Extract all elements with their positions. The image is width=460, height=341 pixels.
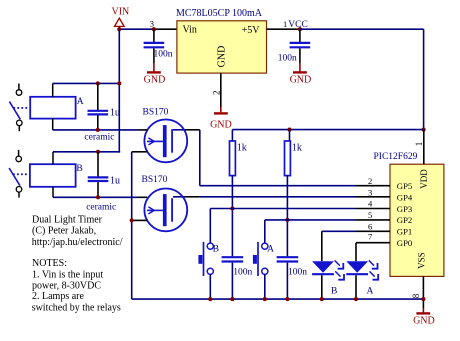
node R1-GP3 junction xyxy=(230,206,234,210)
svg-text:GP2: GP2 xyxy=(397,215,412,225)
resistor R1 1k xyxy=(230,141,247,176)
svg-text:4: 4 xyxy=(368,199,373,209)
node button A rail junction xyxy=(263,297,267,301)
node C4 rail junction xyxy=(285,297,289,301)
node VIN-relayA junction xyxy=(117,81,121,85)
svg-text:2: 2 xyxy=(368,176,372,186)
wire GP5 net from Q1 drain xyxy=(173,130,390,186)
capacitor CB 1u ceramic xyxy=(86,152,120,213)
svg-text:switched by the relays: switched by the relays xyxy=(32,303,121,314)
svg-text:5: 5 xyxy=(368,210,372,220)
svg-text:B: B xyxy=(331,287,337,297)
node capB bottom junction xyxy=(96,195,100,199)
svg-text:GND: GND xyxy=(210,119,232,130)
relay K1 A xyxy=(30,97,84,119)
svg-text:(C) Peter Jakab,: (C) Peter Jakab, xyxy=(32,226,96,237)
switch SB (relay B contact) xyxy=(9,150,27,198)
svg-text:100n: 100n xyxy=(278,54,297,64)
node R2 top junction xyxy=(287,128,291,132)
svg-text:1u: 1u xyxy=(110,108,120,119)
node C2 junction xyxy=(298,27,302,31)
wire R2 top lead xyxy=(289,130,291,141)
svg-text:1k: 1k xyxy=(292,142,302,153)
svg-text:ceramic: ceramic xyxy=(86,203,116,213)
wire VIN to C1 junction xyxy=(119,28,154,30)
supply symbol VIN xyxy=(112,7,130,30)
svg-text:B: B xyxy=(213,245,219,255)
relay K2 B xyxy=(30,164,83,187)
svg-text:1: 1 xyxy=(283,19,287,29)
wire GP2 net to button A xyxy=(265,220,390,243)
svg-text:GP4: GP4 xyxy=(397,192,413,202)
ground symbol for U1 pin 2 xyxy=(210,107,232,130)
svg-text:ceramic: ceramic xyxy=(84,132,114,142)
node C3 rail junction xyxy=(230,297,234,301)
pin 3 lead of U1 xyxy=(150,19,178,30)
wire VIN rail xyxy=(118,29,120,152)
LED B xyxy=(312,260,344,299)
svg-text:VDD: VDD xyxy=(419,169,429,189)
svg-text:GP1: GP1 xyxy=(397,227,412,237)
svg-text:GND: GND xyxy=(290,75,312,86)
node button B rail junction xyxy=(208,297,212,301)
svg-text:7: 7 xyxy=(368,231,372,241)
svg-text:1k: 1k xyxy=(237,142,247,153)
svg-text:B: B xyxy=(76,164,82,174)
wire GP4 net from Q2 drain xyxy=(173,196,390,198)
svg-text:GND: GND xyxy=(413,315,435,326)
capacitor C1 100n xyxy=(144,29,173,63)
wire GP1 net to LED B xyxy=(322,231,390,261)
wire source rail down xyxy=(131,152,133,299)
wire VCC top xyxy=(300,28,424,30)
LED A xyxy=(346,260,378,299)
svg-text:A: A xyxy=(77,97,84,107)
pin 2 lead of U1 xyxy=(211,73,221,107)
node capA bottom junction xyxy=(96,128,100,132)
svg-text:BS170: BS170 xyxy=(143,108,169,118)
wire Q2 source stub xyxy=(132,219,148,221)
wire relay A bottom to Q1 gate xyxy=(53,129,148,131)
ground symbol for U2 pin 8 xyxy=(413,308,435,326)
pin relay B bottom xyxy=(52,187,54,198)
transistor Q1 BS170 xyxy=(143,108,188,163)
svg-text:2. Lamps are: 2. Lamps are xyxy=(32,291,84,302)
svg-text:NOTES:: NOTES: xyxy=(32,258,67,269)
pin relay B top xyxy=(52,152,54,164)
svg-text:100n: 100n xyxy=(233,268,252,278)
svg-text:100n: 100n xyxy=(154,50,173,60)
svg-text:3: 3 xyxy=(150,19,154,29)
svg-text:PIC12F629: PIC12F629 xyxy=(374,152,418,162)
svg-text:BS170: BS170 xyxy=(142,175,168,185)
capacitor C4 100n xyxy=(277,257,308,299)
pin 1 lead of U2 xyxy=(414,130,424,165)
svg-text:power, 8-30VDC: power, 8-30VDC xyxy=(32,280,101,291)
voltage regulator U1 MC78L05CP xyxy=(176,8,267,73)
resistor R2 1k xyxy=(285,141,302,176)
pin 8 lead of U2 xyxy=(411,276,423,308)
wire GP0 net to LED A xyxy=(356,243,390,262)
switch SA (relay A contact) xyxy=(9,84,27,132)
node LED A rail junction xyxy=(354,297,358,301)
node Q2 source junction xyxy=(130,218,134,222)
node capB top junction xyxy=(96,150,100,154)
node VIN junction xyxy=(117,27,121,31)
svg-text:8: 8 xyxy=(411,293,421,298)
svg-text:1u: 1u xyxy=(110,176,120,187)
capacitor C3 100n xyxy=(222,257,253,299)
push button S-A xyxy=(253,242,274,299)
wire R1 bottom xyxy=(231,176,233,257)
wire relay A top line xyxy=(53,82,120,84)
svg-text:100n: 100n xyxy=(288,268,307,278)
svg-text:A: A xyxy=(367,287,374,297)
wire relay B bottom to Q2 gate xyxy=(53,196,147,198)
wire VCC right vertical xyxy=(423,29,425,129)
svg-text:1. Vin is the input: 1. Vin is the input xyxy=(32,270,103,281)
pin relay A top xyxy=(52,83,54,96)
capacitor C2 100n xyxy=(278,29,310,63)
capacitor CA 1u ceramic xyxy=(84,83,120,142)
transistor Q2 BS170 xyxy=(142,175,188,231)
svg-text:GP5: GP5 xyxy=(397,181,412,191)
wire GP3 net to button B xyxy=(210,209,390,244)
svg-text:GP0: GP0 xyxy=(397,238,413,248)
pin 1 lead of U1 with net label VCC xyxy=(267,19,308,30)
wire VCC rail to resistors xyxy=(232,129,423,131)
svg-text:6: 6 xyxy=(368,222,372,232)
svg-text:GND: GND xyxy=(144,75,166,86)
svg-text:3: 3 xyxy=(368,187,372,197)
svg-text:VSS: VSS xyxy=(417,252,427,269)
svg-text:+5V: +5V xyxy=(242,25,261,36)
node capA top junction xyxy=(96,81,100,85)
svg-text:Dual Light Timer: Dual Light Timer xyxy=(32,215,103,226)
svg-text:MC78L05CP 100mA: MC78L05CP 100mA xyxy=(176,8,263,19)
node VCC-VDD junction xyxy=(422,128,426,132)
wire R2 bottom xyxy=(286,176,288,257)
push button S-B xyxy=(198,242,219,299)
ground symbol for C2 xyxy=(290,63,312,86)
wire GND bottom rail xyxy=(132,298,424,300)
svg-text:GP3: GP3 xyxy=(397,204,412,214)
svg-text:VIN: VIN xyxy=(112,7,130,18)
microcontroller U2 PIC12F629 xyxy=(374,152,444,277)
wire relay B top line xyxy=(53,151,120,153)
wire Q1 source stub xyxy=(132,151,147,153)
ground symbol for C1 xyxy=(144,63,166,86)
svg-text:http:/jap.hu/electronic/: http:/jap.hu/electronic/ xyxy=(32,237,123,248)
svg-text:GND: GND xyxy=(216,46,227,68)
node R2-GP2 junction xyxy=(285,218,289,222)
node C1 junction xyxy=(152,27,156,31)
svg-text:A: A xyxy=(267,245,274,255)
pin relay A bottom xyxy=(52,119,54,130)
notes text block xyxy=(32,215,123,314)
node LED B rail junction xyxy=(320,297,324,301)
svg-text:Vin: Vin xyxy=(183,24,197,35)
svg-text:2: 2 xyxy=(211,90,221,95)
svg-text:1: 1 xyxy=(414,142,424,147)
node pin8 rail junction xyxy=(421,297,425,301)
pin numbers 2-7 of U2 xyxy=(368,176,373,241)
